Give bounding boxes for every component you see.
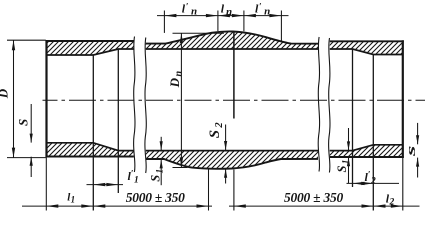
- break line right 2: [329, 38, 330, 173]
- top chain extension at peak right: [243, 11, 245, 32]
- svg-text:S: S: [16, 119, 31, 126]
- right end face: [402, 40, 404, 158]
- dimension s right upper arrow: [417, 123, 419, 144]
- dimension D arrow up: [12, 40, 15, 50]
- dimension S1 right upper arrow: [348, 128, 350, 150]
- top dimension chain line: [157, 15, 289, 17]
- arrow l'n right end: [269, 14, 281, 17]
- pipe right segment top wall hatch: [330, 41, 403, 54]
- bottom chain right line: [229, 205, 420, 207]
- extension line at left 5000 right end: [208, 169, 210, 210]
- left bottom outer line: [46, 156, 134, 158]
- arrow 5000 left right end: [197, 204, 209, 207]
- svg-text:Dn: Dn: [167, 71, 185, 89]
- dimension S upper arrow: [30, 104, 32, 143]
- svg-text:D: D: [0, 88, 10, 99]
- right upset taper edge 2: [372, 55, 374, 211]
- pipe middle segment bottom wall hatch (weld dip): [146, 151, 318, 169]
- dimension l'1 line: [87, 184, 124, 186]
- arrow l1 left: [46, 204, 58, 207]
- right top outer line: [330, 40, 404, 42]
- right bottom inner line with upset taper: [330, 145, 403, 151]
- break line right 1: [318, 37, 319, 172]
- svg-text:5000 ± 350: 5000 ± 350: [126, 190, 185, 205]
- arrow l'n right / ln left pair at 217.9: [206, 14, 218, 17]
- break line left 1: [134, 37, 135, 173]
- left top outer line: [46, 40, 134, 42]
- arrow l'n left: [164, 14, 176, 17]
- svg-text:l1: l1: [67, 192, 75, 205]
- break line left 2: [145, 38, 146, 174]
- arrows at 373.5: [362, 204, 374, 207]
- svg-text:l′1: l′1: [128, 169, 139, 186]
- weld seam extension lower: [233, 170, 235, 211]
- dimension S2 lower arrow: [225, 169, 227, 184]
- left upset taper edge 1: [92, 55, 94, 211]
- dimension D extension bottom: [7, 157, 46, 159]
- arrow l2 right: [391, 204, 403, 207]
- pipe middle segment top wall hatch (weld hump): [146, 31, 318, 49]
- pipe left segment top wall hatch: [47, 41, 134, 55]
- pipe left segment bottom wall hatch: [47, 143, 134, 157]
- svg-text:S1: S1: [149, 169, 165, 182]
- pipe right segment bottom wall hatch: [330, 145, 403, 157]
- top chain extension at hump start: [163, 11, 165, 33]
- centerline: [43, 99, 426, 101]
- arrow ln right / l'n left pair at 243.9: [232, 14, 244, 17]
- svg-text:s: s: [403, 146, 418, 159]
- dimension S lower arrow: [30, 157, 32, 177]
- right upset taper edge 1: [352, 49, 354, 187]
- right top inner line with upset taper: [330, 49, 403, 55]
- dimension D line: [13, 40, 15, 157]
- svg-text:l2: l2: [386, 191, 395, 207]
- svg-text:S2: S2: [207, 122, 225, 139]
- dimension D arrow down: [12, 148, 15, 158]
- top chain extension at peak left: [217, 11, 219, 32]
- dimension S1 left lower arrow: [160, 159, 162, 185]
- dimension l'2 line: [347, 182, 400, 184]
- right end face lower extension: [402, 158, 404, 211]
- left upset taper edge 2: [117, 49, 119, 193]
- svg-text:S1: S1: [335, 160, 351, 173]
- dimension S2 upper arrow: [225, 125, 227, 151]
- dimension S1 right lower arrow: [348, 157, 350, 183]
- left top inner line with upset taper: [47, 49, 134, 55]
- dimension Dn line: [180, 33, 182, 167]
- dimension Dn extension bottom: [173, 167, 188, 169]
- arrows at 92.5: [81, 204, 93, 207]
- left bottom inner line with upset taper: [47, 143, 134, 151]
- dimension Dn extension top: [173, 32, 225, 34]
- right bottom outer line: [330, 156, 404, 158]
- left bottom extension at end face: [45, 157, 47, 211]
- svg-text:5000 ± 350: 5000 ± 350: [284, 190, 343, 205]
- bottom chain left line: [22, 205, 212, 207]
- top chain extension at hump end: [280, 11, 282, 42]
- dimension S1 left upper arrow: [160, 137, 162, 150]
- arrow 5000 right left end: [234, 204, 246, 207]
- weld seam line upper: [233, 32, 235, 119]
- middle top outer profile with weld hump: [146, 31, 318, 43]
- dimension s right lower arrow: [417, 158, 419, 178]
- middle bottom inner line: [146, 150, 318, 152]
- middle top inner line: [146, 48, 318, 50]
- svg-text:ln: ln: [221, 1, 232, 17]
- dimension D extension top: [7, 39, 46, 41]
- middle bottom outer profile with weld dip: [146, 159, 318, 169]
- svg-text:l′2: l′2: [365, 169, 376, 186]
- left end face: [45, 40, 47, 157]
